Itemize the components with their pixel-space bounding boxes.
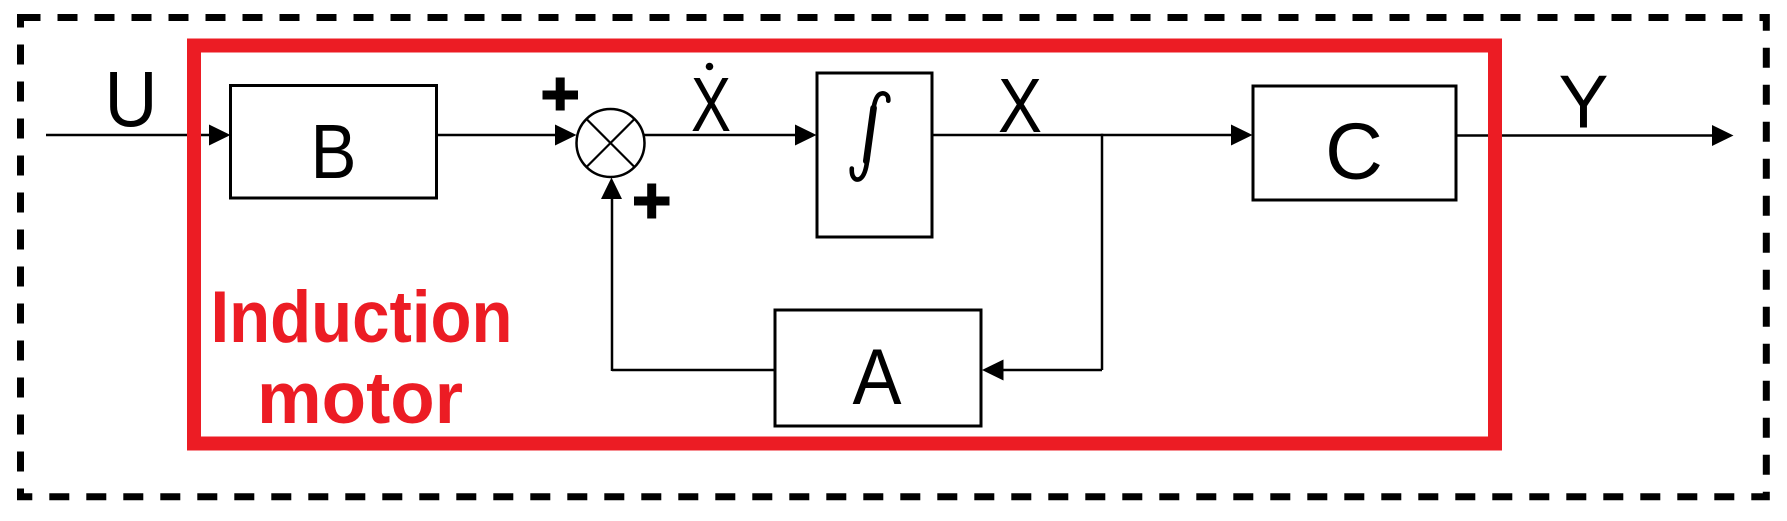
svg-text:A: A [853,333,903,421]
svg-text:Induction: Induction [211,277,513,358]
svg-text:U: U [105,55,158,143]
svg-text:B: B [311,109,357,195]
integrator block [817,73,932,237]
wire summing junction to integrator [645,134,799,137]
block C [1253,86,1456,200]
output wire Y [1456,134,1715,137]
summing junction circle [577,109,645,177]
svg-text:Y: Y [1558,60,1608,144]
branch wire down from node [1101,134,1104,370]
red induction-motor boundary box [194,46,1495,444]
svg-text:C: C [1325,107,1383,196]
svg-text:X: X [998,63,1042,149]
plus sign (upper input) [543,78,579,111]
arrowhead up into summing junction [601,178,622,200]
output arrowhead [1712,125,1734,146]
svg-text:X: X [691,62,731,148]
wire integrator to C [932,134,1234,137]
wire B to summing junction [437,134,559,137]
summing junction cross [587,119,635,167]
arrowhead into summing junction [555,125,577,146]
feedback wire into A (right) [1001,369,1102,372]
arrowhead into integrator [795,125,817,146]
block A [775,310,981,426]
arrowhead into A [982,360,1004,381]
plus sign (lower input) [634,184,670,219]
Xdot dot [706,63,714,71]
integral sign [852,93,889,179]
feedback wire from A (left) [612,369,775,372]
block B [231,86,437,199]
arrowhead into C [1231,125,1253,146]
input wire U [46,134,212,137]
svg-text:motor: motor [257,358,463,439]
feedback wire up into summing junction [611,196,614,371]
arrowhead into B [209,125,231,146]
